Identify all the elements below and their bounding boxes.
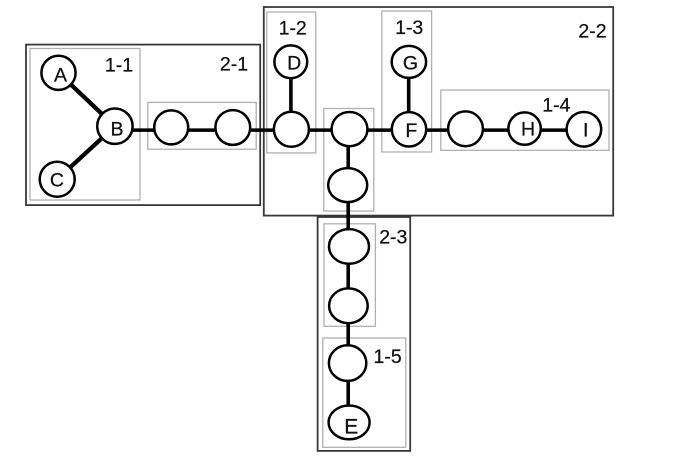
box 2-1 bbox=[26, 45, 260, 206]
edge G-F bbox=[407, 62, 411, 129]
box 1-5 bbox=[323, 338, 406, 447]
svg-text:D: D bbox=[287, 52, 301, 74]
svg-text:E: E bbox=[344, 415, 358, 438]
edge vertical column to E bbox=[346, 129, 350, 422]
node F bbox=[392, 112, 426, 146]
svg-text:2-2: 2-2 bbox=[578, 21, 606, 43]
edge A-B bbox=[59, 73, 115, 126]
box 2-2 bbox=[264, 7, 613, 216]
edge main horizontal chain B..I bbox=[115, 128, 584, 132]
edge C-B bbox=[57, 126, 115, 179]
node u1a bbox=[154, 110, 188, 144]
svg-text:2-3: 2-3 bbox=[379, 227, 407, 249]
node C bbox=[40, 162, 75, 197]
node u1b bbox=[215, 110, 250, 145]
node G bbox=[392, 46, 426, 78]
svg-text:C: C bbox=[50, 170, 64, 192]
box 2-3 bbox=[318, 217, 411, 451]
node u2a (below D, on chain) bbox=[274, 112, 309, 147]
svg-text:1-3: 1-3 bbox=[395, 17, 423, 39]
node I bbox=[567, 112, 602, 147]
node c2 bbox=[329, 229, 369, 264]
node D bbox=[274, 45, 307, 78]
box u2 (unlabeled center column) bbox=[324, 109, 374, 212]
node c4 bbox=[329, 345, 366, 381]
svg-text:1-2: 1-2 bbox=[279, 18, 307, 40]
node H bbox=[508, 112, 540, 144]
svg-text:A: A bbox=[54, 65, 67, 87]
box u3 (unlabeled in 2-3) bbox=[324, 224, 375, 326]
node A bbox=[41, 56, 75, 90]
box u1 (unlabeled in 2-1) bbox=[148, 102, 256, 149]
svg-text:2-1: 2-1 bbox=[220, 54, 248, 76]
box 1-3 bbox=[382, 11, 432, 152]
node c3 bbox=[329, 288, 368, 323]
svg-text:G: G bbox=[403, 52, 418, 74]
box 1-1 bbox=[30, 49, 140, 201]
node c1 bbox=[328, 168, 367, 202]
svg-text:B: B bbox=[110, 119, 123, 141]
svg-text:1-5: 1-5 bbox=[374, 346, 402, 368]
edge D down bbox=[289, 62, 293, 130]
box 1-4 bbox=[441, 90, 609, 150]
svg-text:1-1: 1-1 bbox=[105, 55, 133, 77]
svg-text:1-4: 1-4 bbox=[542, 95, 570, 117]
svg-text:I: I bbox=[583, 120, 588, 142]
box 1-2 bbox=[267, 12, 316, 153]
node B bbox=[97, 109, 132, 144]
node u2b (center column on chain) bbox=[332, 112, 368, 146]
svg-text:F: F bbox=[405, 120, 417, 142]
node u5 (right of F) bbox=[448, 111, 483, 146]
svg-text:H: H bbox=[521, 119, 535, 141]
node E bbox=[329, 406, 370, 440]
